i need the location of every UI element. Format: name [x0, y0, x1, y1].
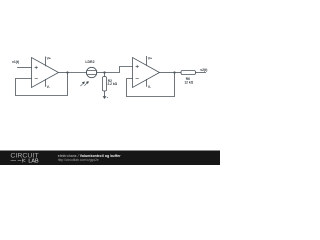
- wire input to op-amp U1 +: [18, 67, 32, 69]
- junction node B: [103, 71, 105, 73]
- V- rail symbol under R2: [103, 95, 108, 99]
- op-amp U1 V- pin: [45, 79, 47, 86]
- wire U1 output to node A: [59, 72, 68, 74]
- svg-text:2.2 kΩ: 2.2 kΩ: [108, 82, 118, 86]
- footer bar: [0, 151, 220, 166]
- LDR2 light arrows: [81, 82, 88, 86]
- wire LDR2 to node B: [97, 72, 105, 74]
- wire R6 to node v2(t): [196, 72, 206, 74]
- resistor R2: [103, 73, 107, 96]
- svg-text:LAB: LAB: [28, 159, 38, 165]
- svg-text:http://circuitlab.com/c/gqd2e: http://circuitlab.com/c/gqd2e: [58, 158, 99, 162]
- LDR2: [86, 67, 96, 77]
- svg-text:V-: V-: [47, 85, 50, 89]
- CircuitLab logo: [10, 153, 38, 165]
- svg-text:v1(t): v1(t): [12, 60, 19, 64]
- op-amp U2 V+ pin: [146, 56, 148, 65]
- op-amp U1 V+ pin: [45, 57, 47, 66]
- svg-text:v2(t): v2(t): [200, 68, 207, 72]
- junction node C: [173, 71, 175, 73]
- LDR2 arrowheads: [82, 81, 89, 84]
- wire feedback U1: [16, 73, 68, 96]
- svg-text:V-: V-: [148, 85, 151, 89]
- svg-text:V+: V+: [148, 56, 152, 60]
- op-amp U2: [133, 58, 160, 88]
- svg-text:V+: V+: [47, 57, 51, 61]
- op-amp U2 V- pin: [146, 79, 148, 86]
- junction node A: [66, 71, 68, 73]
- op-amp U1: [32, 58, 59, 88]
- wire U2 output to node C: [160, 72, 175, 74]
- labels: [12, 56, 207, 89]
- svg-text:12 kΩ: 12 kΩ: [184, 80, 193, 84]
- wire node A to LDR2: [68, 72, 87, 74]
- resistor R6: [181, 71, 196, 75]
- wire feedback U2: [127, 73, 175, 97]
- svg-text:LDR2: LDR2: [85, 60, 94, 64]
- wire node B to op-amp U2 +: [105, 67, 133, 73]
- wire node C to R6: [175, 72, 182, 74]
